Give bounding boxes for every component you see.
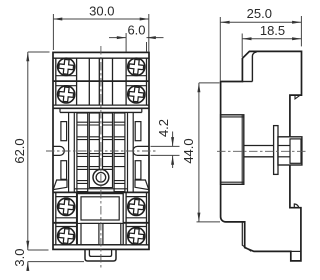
- center screw hole outer: [93, 169, 109, 185]
- right slot upper: [135, 122, 141, 141]
- dim 6.0 ext left: [125, 33, 127, 52]
- screw B2: [128, 86, 145, 103]
- side terminal block inner bottom: [221, 181, 244, 183]
- fin inner wall rounded: [252, 52, 256, 81]
- screw A1: [58, 58, 75, 75]
- dim 6.0 line left tail: [109, 37, 126, 39]
- middle band inner walls right: [132, 112, 134, 191]
- screw head inner block: [290, 139, 301, 163]
- right slot lower: [135, 161, 141, 180]
- dim 4.2 ext bottom: [151, 154, 180, 156]
- terminal box verticals row1-2 right: [125, 58, 127, 105]
- row1/row2 separator: [53, 80, 149, 82]
- left slot upper: [61, 122, 67, 141]
- right wedge: [135, 180, 149, 190]
- bottom terminal verticals left: [55, 192, 57, 244]
- middle band top thick line: [53, 107, 149, 109]
- dim 25.0 ext right: [300, 16, 302, 46]
- bottom section top thick line: [53, 191, 149, 193]
- svg-text:18.5: 18.5: [260, 23, 285, 38]
- step verticals: [59, 108, 61, 112]
- dim 30.0 line: [53, 18, 149, 20]
- front horizontal centerline: [46, 150, 156, 152]
- screw D2: [128, 227, 145, 244]
- bottom center block: [77, 194, 123, 245]
- row2 bottom line: [53, 104, 149, 106]
- left wedge: [53, 180, 67, 190]
- dim 44.0 line: [198, 83, 200, 222]
- dim 6.0 line right tail: [147, 37, 164, 39]
- dim 6.0 ext right: [146, 42, 148, 52]
- front vertical centerline: [100, 46, 102, 268]
- top center cells: [88, 58, 90, 105]
- dim 18.5 ext left: [241, 34, 243, 58]
- dim 62.0 ext bottom: [28, 249, 49, 251]
- pocket inner line: [242, 222, 251, 251]
- arrowheads 18.5: [242, 37, 251, 40]
- pin column 4: [114, 113, 125, 192]
- dim 44.0 ext top: [199, 82, 220, 84]
- dim 4.2 line lower: [172, 155, 174, 168]
- screw A2: [128, 58, 145, 75]
- bottom center double line: [77, 222, 123, 224]
- side terminal block: [221, 115, 244, 185]
- dim 44.0 ext bottom: [197, 221, 221, 223]
- arrowheads 44.0: [197, 83, 200, 92]
- top band line: [53, 57, 149, 59]
- right step notch: [295, 95, 300, 99]
- dim 4.2 ext top: [151, 145, 180, 147]
- washer flange: [274, 126, 278, 175]
- screw D1: [58, 227, 75, 244]
- side horizontal centerline: [217, 150, 307, 152]
- arrowheads 4.2 (outside): [171, 137, 174, 146]
- dim 30.0 ext right: [148, 14, 150, 52]
- side terminal block inner top: [221, 116, 244, 118]
- arrowheads 62.0: [26, 52, 29, 61]
- foot top edge: [291, 250, 301, 252]
- dim 25.0 line: [220, 21, 301, 23]
- screw head envelope: [278, 137, 302, 165]
- svg-text:4.2: 4.2: [156, 119, 171, 137]
- screw shaft through head: [278, 145, 290, 147]
- front view body outline: [53, 52, 149, 249]
- middle band second line: [60, 111, 142, 113]
- bottom strip line: [53, 244, 149, 246]
- svg-text:3.0: 3.0: [12, 249, 27, 267]
- latch hook arc: [294, 204, 298, 208]
- center screw hole inner: [96, 173, 106, 183]
- svg-text:44.0: 44.0: [181, 138, 196, 163]
- arrowheads 6.0 (outside): [117, 36, 126, 39]
- arrowhead 3.0 (outside, up): [26, 262, 29, 271]
- pin column 2: [89, 113, 99, 169]
- pin column dividers: [77, 122, 125, 183]
- screw B1: [58, 86, 75, 103]
- side terminal block inner right: [241, 115, 243, 185]
- center pocket: [89, 169, 112, 187]
- left edge slot 4.2: [53, 146, 64, 155]
- dim 4.2 line upper: [172, 132, 174, 147]
- svg-text:25.0: 25.0: [247, 6, 272, 21]
- bottom tab outer: [85, 249, 116, 261]
- svg-text:6.0: 6.0: [127, 23, 145, 38]
- middle band bottom inner line: [74, 188, 127, 190]
- screw C1: [58, 198, 75, 215]
- dim 18.5 line: [242, 38, 301, 40]
- bottom tab inner: [89, 249, 111, 256]
- dim 25.0 ext left: [219, 17, 221, 81]
- svg-text:62.0: 62.0: [12, 138, 27, 163]
- middle band inner walls left: [68, 112, 70, 191]
- pin column 1: [77, 113, 88, 192]
- screw shaft: [244, 145, 274, 147]
- screw box inset lines row4: [56, 226, 77, 228]
- arrowheads 30.0: [53, 18, 62, 21]
- screw C2: [128, 198, 145, 215]
- dim 62.0 ext top: [28, 51, 50, 53]
- dim 3.0 ext: [28, 261, 84, 263]
- pin column 3: [103, 113, 113, 169]
- left slot lower: [61, 161, 67, 180]
- svg-text:30.0: 30.0: [89, 4, 114, 19]
- side view main outline: [221, 51, 302, 261]
- dim 62.0 line: [27, 52, 29, 250]
- bottom terminal verticals right: [125, 192, 127, 244]
- dim 3.0 line tail: [27, 262, 29, 271]
- bottom rows separator: [53, 222, 77, 224]
- bottom center cell right: [103, 223, 121, 244]
- right edge slot 4.2: [133, 146, 149, 155]
- shelf line to inner wall: [242, 81, 252, 83]
- arrowheads 25.0: [220, 21, 229, 24]
- screw box inset lines row2: [56, 85, 77, 87]
- bottom center cell left: [81, 223, 99, 244]
- bottom center inner window: [81, 197, 119, 220]
- screw box inset lines row1: [56, 75, 77, 77]
- terminal box verticals row1-2 left: [55, 58, 57, 105]
- dim 30.0 ext left: [52, 14, 54, 50]
- screw box inset lines row3: [56, 196, 77, 198]
